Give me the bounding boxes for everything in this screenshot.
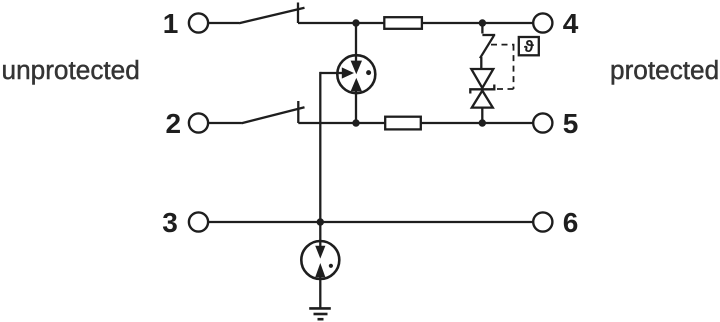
wire switch to resistor R2 — [298, 122, 385, 124]
wire GDT F1 bottom to line 2 — [355, 90, 357, 123]
svg-text:2: 2 — [166, 108, 182, 139]
dashed mechanical link horizontal bottom — [492, 88, 514, 90]
terminal 2 — [189, 113, 208, 132]
wire suppressor diode to line 2 — [481, 108, 483, 123]
disconnect switch line 2 blade — [242, 107, 305, 123]
wire blade to suppressor diode — [480, 57, 482, 70]
thermal disconnect blade — [480, 36, 494, 58]
svg-text:5: 5 — [563, 108, 579, 139]
svg-text:4: 4 — [563, 8, 579, 39]
GDT F1 top electrode arrow — [351, 61, 362, 75]
terminal 4 — [533, 13, 552, 32]
dashed mechanical link horizontal top — [491, 44, 514, 46]
junction node line1/thermal disconnect — [479, 19, 486, 26]
ground symbol — [309, 308, 331, 319]
wire line 3 — [208, 221, 533, 223]
thermal disconnect fixed contact tick — [482, 34, 495, 36]
gas discharge tube F2 (2-electrode) — [301, 241, 339, 279]
terminal 5 — [533, 113, 552, 132]
svg-text:1: 1 — [163, 8, 179, 39]
wire ground rail vertical — [319, 72, 321, 247]
wire resistor R1 to terminal 4 — [422, 22, 533, 24]
GDT F1 inner dot — [366, 70, 371, 75]
terminal 1 — [189, 13, 208, 32]
wire GDT F2 to ground — [319, 277, 321, 308]
suppressor diode zener bar with hooks — [470, 85, 494, 94]
disconnect switch line 2 fixed contact — [297, 101, 299, 123]
wire terminal 2 to switch — [208, 122, 241, 124]
dashed mechanical link vertical — [513, 45, 515, 89]
svg-text:protected: protected — [610, 55, 719, 85]
junction node line1/GDT — [352, 19, 359, 26]
suppressor diode bottom triangle — [472, 91, 493, 108]
GDT F2 bottom electrode arrow — [315, 263, 325, 277]
GDT F2 top electrode arrow — [315, 246, 325, 259]
svg-text:3: 3 — [162, 207, 178, 238]
junction node line3/ground GDT — [317, 218, 324, 225]
temperature sensor box — [519, 37, 539, 55]
wire junction line1 down to gas discharge tube F1 — [355, 23, 357, 62]
suppressor diode top triangle — [471, 69, 493, 88]
svg-text:unprotected: unprotected — [2, 55, 140, 85]
junction node line2/GDT — [352, 119, 359, 126]
wire switch to resistor R1 — [298, 22, 384, 24]
gas discharge tube F1 (3-electrode) — [337, 55, 375, 93]
wire terminal 1 to switch — [208, 22, 239, 24]
GDT F2 inner dot — [329, 264, 333, 268]
resistor R2 — [385, 117, 421, 130]
terminal 6 — [533, 212, 552, 231]
GDT F1 left electrode arrow — [342, 67, 354, 78]
GDT F1 left electrode stem — [338, 72, 344, 74]
disconnect switch line 1 blade — [239, 8, 305, 23]
thermal disconnect wire from junction — [481, 23, 483, 34]
wire resistor R2 to terminal 5 — [421, 122, 533, 124]
disconnect switch line 1 fixed contact — [297, 3, 299, 24]
junction node line2/suppressor diode — [479, 119, 486, 126]
terminal 3 — [189, 212, 208, 231]
wire GDT F1 left electrode to ground rail — [320, 72, 337, 74]
svg-text:6: 6 — [563, 207, 579, 238]
svg-text:ϑ: ϑ — [524, 37, 534, 56]
GDT F1 bottom electrode arrow — [351, 78, 362, 92]
resistor R1 — [384, 17, 422, 29]
